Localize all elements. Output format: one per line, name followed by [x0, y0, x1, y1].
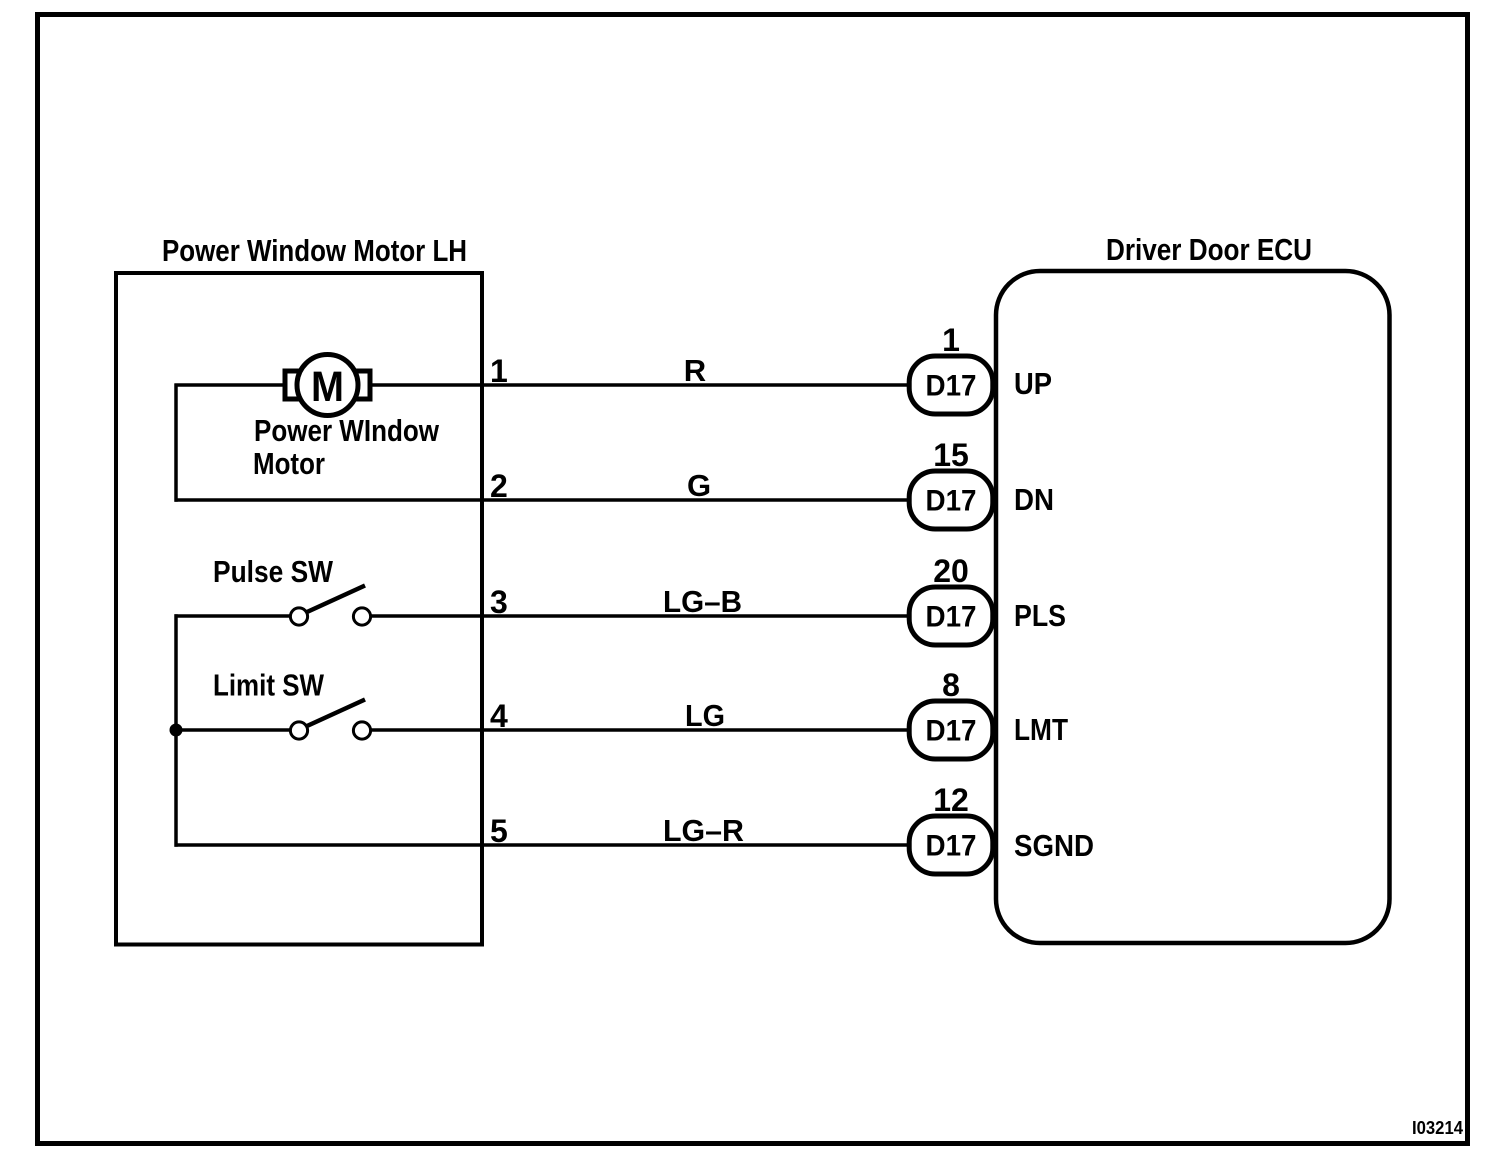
svg-text:15: 15 [933, 437, 969, 473]
wire 3 left segment to Pulse SW [175, 614, 292, 618]
wire 4 left segment to Limit SW [175, 728, 292, 732]
svg-text:Pulse SW: Pulse SW [213, 554, 334, 589]
connector D17 pin 8 [909, 701, 993, 759]
svg-text:LMT: LMT [1014, 712, 1068, 747]
svg-text:20: 20 [933, 553, 969, 589]
wire 4 LG: Limit SW to D17 pin 8 [370, 728, 907, 732]
Limit SW lever [307, 700, 365, 727]
svg-text:5: 5 [490, 813, 508, 849]
svg-text:D17: D17 [926, 370, 977, 403]
svg-text:Driver Door ECU: Driver Door ECU [1106, 232, 1312, 267]
Limit SW right contact [353, 722, 370, 739]
svg-text:D17: D17 [926, 485, 977, 518]
svg-text:D17: D17 [926, 715, 977, 748]
svg-text:12: 12 [933, 782, 969, 818]
enclosure box Power Window Motor LH [116, 273, 482, 945]
svg-text:LG–B: LG–B [663, 584, 742, 619]
Pulse SW left contact [290, 608, 307, 625]
wire 3 LG-B: Pulse SW to D17 pin 20 [370, 614, 907, 618]
wire 1 R: motor to D17 pin 1 [372, 383, 907, 387]
ECU box Driver Door ECU [996, 271, 1390, 943]
svg-text:Motor: Motor [253, 446, 325, 481]
svg-text:SGND: SGND [1014, 828, 1094, 863]
svg-text:Limit SW: Limit SW [213, 668, 325, 703]
junction node at bus and Limit SW [170, 724, 183, 737]
svg-text:2: 2 [490, 468, 508, 504]
motor M brush bracket [285, 371, 370, 399]
connector D17 pin 20 [909, 587, 993, 645]
wire vertical bus x=176 [174, 614, 178, 847]
Limit SW left contact [290, 722, 307, 739]
svg-text:8: 8 [942, 667, 960, 703]
svg-text:M: M [311, 363, 344, 411]
Pulse SW lever [307, 586, 365, 613]
wire motor loop vertical [174, 384, 178, 502]
svg-text:G: G [687, 468, 711, 503]
svg-text:PLS: PLS [1014, 598, 1066, 633]
svg-text:D17: D17 [926, 601, 977, 634]
svg-text:Power Window Motor LH: Power Window Motor LH [162, 233, 467, 268]
motor M1 circle [297, 355, 358, 416]
svg-text:Power WIndow: Power WIndow [254, 413, 439, 448]
svg-text:DN: DN [1014, 482, 1054, 517]
svg-text:R: R [684, 353, 706, 388]
svg-text:I03214: I03214 [1412, 1118, 1463, 1138]
connector D17 pin 12 [909, 816, 993, 874]
connector D17 pin 15 [909, 471, 993, 529]
wire 5 LG-R: bus to D17 pin 12 [175, 843, 908, 847]
svg-text:1: 1 [942, 322, 960, 358]
wire motor left stub [175, 383, 285, 387]
svg-text:3: 3 [490, 584, 508, 620]
connector D17 pin 1 [909, 356, 993, 414]
Pulse SW right contact [353, 608, 370, 625]
svg-text:D17: D17 [926, 830, 977, 863]
svg-text:1: 1 [490, 353, 508, 389]
wire 2 G: motor loop to D17 pin 15 [175, 498, 908, 502]
svg-text:UP: UP [1014, 366, 1052, 401]
svg-text:LG–R: LG–R [663, 813, 744, 848]
svg-text:LG: LG [685, 698, 725, 733]
svg-text:4: 4 [490, 698, 508, 734]
